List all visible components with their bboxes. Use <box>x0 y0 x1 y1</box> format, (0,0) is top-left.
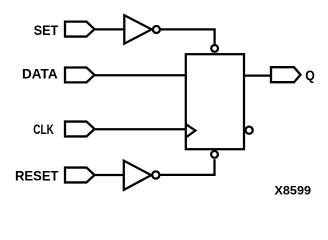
inverter U2 output bubble <box>152 171 159 178</box>
wire DATA to flip-flop <box>95 74 186 76</box>
svg-text:CLK: CLK <box>33 122 54 137</box>
input connector SET <box>65 22 95 37</box>
bubble inverted output pin (right of flip-flop) <box>246 127 253 134</box>
flip-flop body U3 <box>186 54 244 149</box>
svg-text:SET: SET <box>34 23 59 38</box>
wire Q output <box>244 74 271 76</box>
wire inverter U2 to bottom bubble <box>159 159 214 175</box>
svg-text:Q: Q <box>305 68 315 83</box>
input connector CLK <box>65 122 95 137</box>
inverter U1 output bubble <box>153 26 160 33</box>
wire CLK to flip-flop <box>95 128 186 130</box>
output connector Q <box>271 67 301 82</box>
clock edge triangle inside flip-flop <box>186 124 196 137</box>
bubble active-low SET pin (top of flip-flop) <box>211 45 218 52</box>
input connector DATA <box>65 68 95 83</box>
svg-text:RESET: RESET <box>15 169 59 184</box>
bubble active-low RESET pin (bottom of flip-flop) <box>211 151 218 158</box>
svg-text:X8599: X8599 <box>275 184 312 198</box>
inverter U2 (RESET) triangle <box>124 161 151 190</box>
inverter U1 (SET) triangle <box>124 15 151 44</box>
wire RESET to inverter <box>95 174 124 176</box>
wire inverter U1 to top bubble <box>160 29 215 44</box>
wire SET to inverter <box>95 28 125 30</box>
svg-text:DATA: DATA <box>22 67 58 82</box>
input connector RESET <box>65 168 95 183</box>
